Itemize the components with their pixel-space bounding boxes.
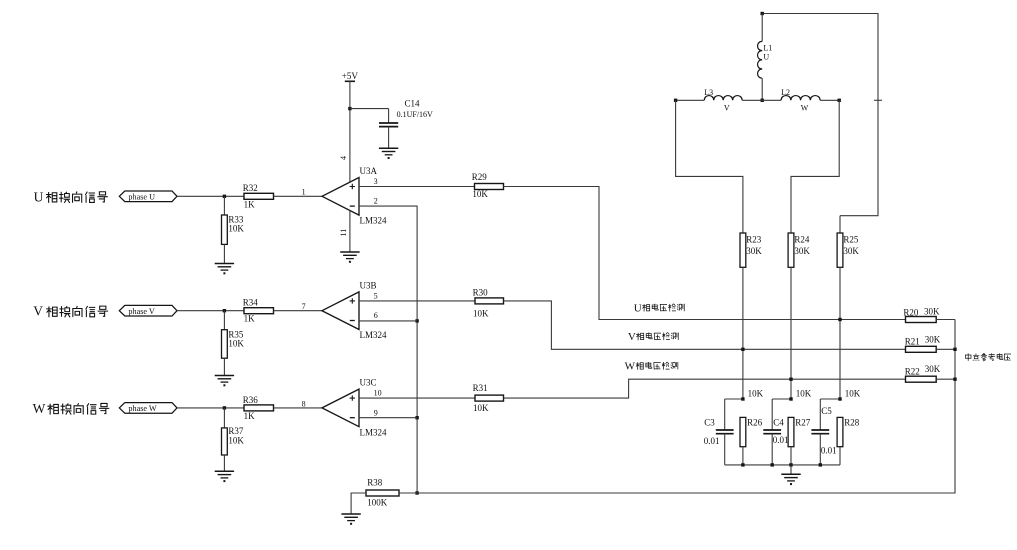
wire [936,319,955,321]
resistor R35 [222,330,228,359]
value 10K [473,403,489,413]
label R34 [243,298,259,308]
svg-text:0.01: 0.01 [821,446,837,456]
op-amp U3B [322,292,359,330]
label R38 [367,478,383,488]
svg-text:10K: 10K [845,388,861,398]
wire [936,378,955,380]
svg-text:L2: L2 [781,88,790,97]
wire [819,434,821,465]
svg-text:4: 4 [339,156,348,160]
svg-text:phase W: phase W [128,404,157,413]
wire [790,465,792,474]
pin 11 label [339,229,348,237]
label U (winding) [763,53,769,62]
node R23 / V detect [741,348,744,351]
svg-text:R32: R32 [243,183,258,193]
svg-text:R25: R25 [843,235,859,245]
wire [417,320,955,494]
resistor R37 [222,428,228,455]
net label V相电压检测 [628,331,678,343]
resistor R32 [244,193,274,199]
resistor R22 [906,376,937,382]
label R28 [844,418,860,428]
svg-text:6: 6 [374,311,378,320]
value 100K [367,497,388,507]
svg-text:R20: R20 [903,308,919,318]
svg-text:30K: 30K [843,246,859,256]
net label 中点参考电压 [965,353,1011,361]
value 10K [228,339,244,349]
wire [399,492,417,494]
label U3B [360,281,377,291]
label R31 [473,383,488,393]
wire [504,301,906,349]
svg-text:30K: 30K [746,246,762,256]
svg-text:R23: R23 [746,235,762,245]
wire [177,407,244,409]
value 1K [244,199,256,209]
wire [839,267,841,399]
ground (U3A pin 11) [340,252,359,263]
wire [742,267,744,399]
svg-text:2: 2 [374,197,378,206]
svg-text:10K: 10K [748,388,764,398]
label R29 [472,172,488,182]
svg-text:W: W [33,401,46,416]
label LM324 [360,216,388,226]
node R25 / U detect [838,318,841,321]
value 0.01 [704,436,720,446]
node motor neutral [761,99,764,102]
svg-text:11: 11 [339,229,348,237]
wire [676,100,743,233]
svg-text:10K: 10K [228,339,244,349]
capacitor C14 [379,123,398,127]
resistor R28 [837,417,843,446]
pin 3 (+) [374,177,378,186]
net label W相电压检测 [625,361,678,373]
svg-text:30K: 30K [924,307,940,317]
port connector phase W [119,403,177,414]
wire [820,99,839,101]
pin 11 wire (V-) [349,211,351,253]
svg-text:U: U [34,189,44,204]
resistor R21 [906,346,937,352]
value 10K [473,309,489,319]
value 1K [244,411,256,421]
node rail/C5 [819,463,822,466]
wire [742,99,781,101]
pin 1 (output) [302,188,306,197]
label L2 [781,88,790,97]
svg-text:R31: R31 [473,383,488,393]
wire [350,108,389,110]
svg-text:10K: 10K [473,403,489,413]
wire [504,187,906,320]
label LM324 [360,427,388,437]
wire [351,493,366,514]
net label W相换向信号 [33,401,110,416]
node R28 top [838,397,841,400]
svg-text:W: W [801,103,809,112]
ground [215,264,234,275]
label R37 [228,426,244,436]
resistor R20 [906,317,937,323]
svg-text:5: 5 [374,291,378,300]
label R32 [243,183,258,193]
wire [762,14,878,216]
svg-text:L1: L1 [763,43,772,52]
value 0.01 [773,435,789,445]
value 10K [228,435,244,445]
value 10K [845,388,861,398]
label U3A [360,166,378,176]
label R22 [905,366,920,376]
svg-text:R26: R26 [747,418,763,428]
svg-text:1K: 1K [244,411,256,421]
wire [820,398,840,400]
node L1 top [761,12,764,15]
wire [742,447,744,465]
wire [771,434,773,465]
value 30K [843,246,859,256]
svg-text:10K: 10K [228,435,244,445]
node bus/R21 [953,348,956,351]
resistor R29 [475,184,504,190]
capacitor C4 [763,430,781,434]
wire [359,206,417,493]
node bus/R22 [953,378,956,381]
svg-text:+5V: +5V [342,71,359,81]
wire [771,399,773,430]
svg-text:R37: R37 [228,426,244,436]
svg-text:3: 3 [374,177,378,186]
inductor L1 [758,14,763,101]
svg-text:C14: C14 [405,99,421,109]
resistor R23 [740,233,746,267]
node rail/C4 [771,463,774,466]
svg-text:30K: 30K [794,246,810,256]
label LM324 [360,330,388,340]
net label U相电压检测 [634,302,685,314]
label R35 [228,330,244,340]
svg-text:V: V [33,304,43,319]
wire pin3 U3A [359,186,475,188]
wire [790,447,792,465]
svg-text:10K: 10K [228,224,244,234]
inductor L2 [781,96,820,101]
wire [724,399,726,430]
svg-text:V: V [628,331,636,343]
ground [215,471,234,482]
resistor R31 [475,395,504,401]
value 10K [796,388,812,398]
label R25 [843,235,859,245]
svg-text:U: U [634,302,642,314]
wire [839,216,841,233]
svg-text:0.01: 0.01 [704,436,720,446]
label R33 [228,215,244,225]
wire [790,267,792,399]
svg-text:10K: 10K [472,189,488,199]
pin 7 (output) [302,302,306,311]
svg-text:R28: R28 [844,418,860,428]
stub [874,99,882,101]
wire [772,398,791,400]
resistor R38 [366,490,399,496]
wire [223,358,225,375]
ground [379,148,398,159]
power +5V [342,71,359,81]
pin 2 (-) [374,197,378,206]
wire [177,195,244,197]
node R24 / W detect [789,378,792,381]
resistor R25 [837,233,843,267]
wire pin9 U3C [359,417,417,419]
resistor R36 [244,405,274,411]
label U3C [360,378,377,388]
wire pin10 U3C [359,397,475,399]
node bus / U3C pin9 [415,416,418,419]
net label U相换向信号 [34,189,108,204]
wire [223,455,225,471]
value 30K [794,246,810,256]
wire [388,109,390,123]
svg-text:7: 7 [302,302,306,311]
node rail/R27 [789,463,792,466]
resistor R27 [788,417,794,446]
port connector phase U [119,191,177,202]
value 0.1UF/16V [397,110,433,119]
svg-text:9: 9 [374,408,378,417]
resistor R34 [244,308,274,314]
wire [936,348,955,350]
wire pin6 U3B [359,320,417,322]
svg-text:R34: R34 [243,298,259,308]
resistor R33 [222,215,228,244]
value 30K [925,364,941,374]
capacitor C5 [811,430,829,434]
ground [215,376,234,387]
wire [725,464,840,466]
wire [223,244,225,263]
label C3 [704,418,715,428]
pin 6 (-) [374,311,378,320]
label R24 [794,235,810,245]
svg-text:LM324: LM324 [360,427,388,437]
svg-text:10K: 10K [796,388,812,398]
svg-text:0.01: 0.01 [773,435,789,445]
svg-text:R24: R24 [794,235,810,245]
wire [274,310,323,312]
node R27 top [789,397,792,400]
svg-text:C5: C5 [821,406,832,416]
label R36 [243,395,259,405]
wire pin5 U3B [359,300,475,302]
node phase V junction [223,309,226,312]
svg-text:W: W [625,361,636,373]
ground (RC filters) [781,474,800,485]
svg-text:100K: 100K [367,497,388,507]
svg-text:10: 10 [374,389,382,398]
label R23 [746,235,762,245]
wire [791,100,839,233]
node bus / U3B pin6 [415,319,418,322]
wire [676,99,705,101]
resistor R26 [740,417,746,446]
node W winding end [838,99,841,102]
value 10K [748,388,764,398]
node V winding end [674,99,677,102]
value 10K [472,189,488,199]
svg-text:R36: R36 [243,395,259,405]
label W (winding) [801,103,809,112]
svg-text:C3: C3 [704,418,715,428]
label R21 [905,337,920,347]
port connector phase V [119,305,177,316]
op-amp U3C [322,389,359,427]
node phase U junction [223,195,226,198]
wire [177,310,244,312]
svg-text:10K: 10K [473,309,489,319]
inductor L3 [704,96,742,101]
net label V相换向信号 [33,304,108,319]
svg-text:V: V [724,103,730,112]
wire [819,399,821,430]
svg-text:C4: C4 [773,418,784,428]
label C5 [821,406,832,416]
svg-text:U3A: U3A [360,166,378,176]
svg-text:8: 8 [302,399,306,408]
wire [839,447,841,465]
wire [725,398,743,400]
svg-text:30K: 30K [925,364,941,374]
svg-text:R21: R21 [905,337,920,347]
svg-text:R22: R22 [905,366,920,376]
node +5V / C14 [348,107,351,110]
wire [504,379,906,398]
wire [223,196,225,215]
label L1 [763,43,772,52]
value 30K [924,307,940,317]
value 0.01 [821,446,837,456]
label C4 [773,418,784,428]
svg-text:R27: R27 [795,418,811,428]
svg-text:R30: R30 [473,288,489,298]
resistor R24 [788,233,794,267]
capacitor C3 [716,430,734,434]
pin 4 wire (V+) [339,156,348,160]
resistor R30 [475,298,504,304]
wire [349,81,351,182]
op-amp U3A [322,178,359,216]
wire [223,311,225,330]
label V (winding) [724,103,730,112]
label R20 [903,308,919,318]
label L3 [704,88,713,97]
value 30K [746,246,762,256]
label R27 [795,418,811,428]
svg-text:L3: L3 [704,88,713,97]
svg-text:U3C: U3C [360,378,377,388]
pin 8 (output) [302,399,306,408]
wire [223,408,225,428]
svg-text:R38: R38 [367,478,383,488]
svg-text:U: U [763,53,769,62]
label R26 [747,418,763,428]
wire [274,407,323,409]
pin 9 (-) [374,408,378,417]
svg-text:LM324: LM324 [360,330,388,340]
svg-text:1K: 1K [244,314,256,324]
label C14 [405,99,421,109]
node rail/R26 [741,463,744,466]
svg-text:LM324: LM324 [360,216,388,226]
svg-text:phase V: phase V [128,307,155,316]
pin 10 (+) [374,389,382,398]
value 1K [244,314,256,324]
wire [388,127,390,149]
value 10K [228,224,244,234]
node phase W junction [223,406,226,409]
wire [274,195,323,197]
ground (R38) [341,514,360,525]
svg-text:30K: 30K [925,334,941,344]
svg-text:0.1UF/16V: 0.1UF/16V [397,110,433,119]
svg-text:R29: R29 [472,172,488,182]
node bus / R38 [415,491,418,494]
svg-text:phase U: phase U [128,193,155,202]
svg-text:1K: 1K [244,199,256,209]
node R26 top [741,397,744,400]
wire [724,434,726,465]
svg-text:U3B: U3B [360,281,377,291]
svg-text:1: 1 [302,188,306,197]
label R30 [473,288,489,298]
pin 5 (+) [374,291,378,300]
value 30K [925,334,941,344]
